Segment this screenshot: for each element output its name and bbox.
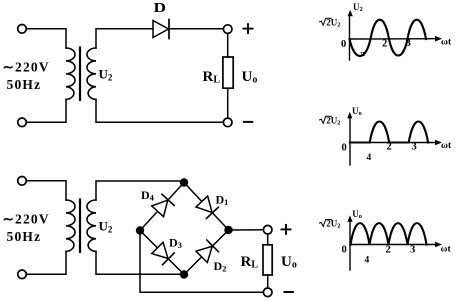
wire diode D to + terminal xyxy=(169,28,223,30)
svg-text:4: 4 xyxy=(365,256,370,266)
terminal +out (bottom circuit) xyxy=(263,225,272,234)
wire RL to - terminal (bottom circuit) xyxy=(267,275,269,288)
axis X panel 3 xyxy=(350,244,437,246)
diode D4 (triangle + bar, pointing to node A) xyxy=(152,194,174,216)
svg-text:RL: RL xyxy=(203,69,221,86)
diode D cathode bar xyxy=(168,20,170,39)
svg-text:ωt: ωt xyxy=(441,38,452,48)
svg-text:D4: D4 xyxy=(141,188,155,203)
label 2pi (panel 1) xyxy=(382,39,387,50)
label pi (panel 1) xyxy=(361,49,366,58)
curve u2 sine wave xyxy=(350,20,427,56)
curve full-wave rectified output xyxy=(351,223,427,244)
label wt (panel 2) xyxy=(441,141,452,151)
wire T4 to primary bottom xyxy=(27,252,66,275)
label wt (panel 1) xyxy=(441,38,452,48)
label D1 xyxy=(216,193,229,208)
svg-text:0: 0 xyxy=(342,245,347,256)
label Uo (panel 3 y-axis) xyxy=(352,209,362,220)
terminal T1 (top-left input) xyxy=(18,25,27,34)
label 0 (panel 3 origin) xyxy=(342,245,347,256)
wire secondary bottom to bridge bottom node xyxy=(96,252,184,275)
label U2 (secondary voltage, bottom circuit) xyxy=(99,219,113,235)
svg-text:3: 3 xyxy=(406,38,411,49)
svg-text:0: 0 xyxy=(342,143,347,154)
label ~220V 50Hz (source value, top circuit) xyxy=(3,60,50,92)
svg-text:2U2: 2U2 xyxy=(326,219,340,230)
axis Y panel 1 xyxy=(349,14,351,60)
wire bridge edge A-B (through D4) xyxy=(140,183,184,231)
label + (top circuit) xyxy=(244,24,253,33)
svg-text:D3: D3 xyxy=(169,236,182,251)
label ~220V 50Hz (source value, bottom circuit) xyxy=(3,212,50,244)
label sqrt2 U2 (panel 1 amplitude) xyxy=(320,17,341,28)
terminal T4 (bottom-left input, bottom circuit) xyxy=(18,270,27,279)
label U2 (secondary voltage, top circuit) xyxy=(99,67,113,83)
transformer TR2 secondary winding xyxy=(87,200,96,252)
svg-text:50Hz: 50Hz xyxy=(7,77,42,92)
arrowhead Y panel 1 xyxy=(348,10,353,16)
svg-text:∼220V: ∼220V xyxy=(3,212,50,227)
resistor RL (top circuit) xyxy=(223,57,233,88)
svg-text:π: π xyxy=(361,49,366,58)
svg-text:ωt: ωt xyxy=(441,141,452,151)
terminal T2 (bottom-left input) xyxy=(18,118,27,127)
axis X panel 2 xyxy=(350,142,437,144)
label 3pi (panel 3) xyxy=(410,245,415,256)
svg-text:50Hz: 50Hz xyxy=(7,229,42,244)
svg-text:Uo: Uo xyxy=(242,69,258,86)
label pi (panel 3) xyxy=(365,256,370,266)
transformer TR2 primary winding xyxy=(66,200,75,252)
svg-text:ωt: ωt xyxy=(441,245,452,255)
label sqrt2 U2 (panel 2 amplitude) xyxy=(320,116,341,127)
svg-text:RL: RL xyxy=(241,254,259,271)
curve half-wave rectified output xyxy=(350,122,428,143)
svg-text:2: 2 xyxy=(382,39,387,50)
wire RL to - terminal xyxy=(227,88,229,118)
transformer TR1 primary winding xyxy=(66,48,75,100)
label 2pi (panel 2) xyxy=(387,142,392,153)
svg-text:2U2: 2U2 xyxy=(326,116,340,127)
node C (bridge right junction) xyxy=(224,226,232,234)
terminal -out (top circuit) xyxy=(223,118,232,127)
svg-text:Uo: Uo xyxy=(352,106,362,117)
transformer TR1 core xyxy=(79,48,81,101)
label RL (top circuit) xyxy=(203,69,221,86)
label wt (panel 3) xyxy=(441,245,452,255)
axis Y panel 3 xyxy=(349,220,351,271)
label U2 (panel 1 y-axis) xyxy=(353,2,363,13)
diode D3 (triangle + bar, pointing to node E) xyxy=(152,242,174,264)
svg-text:3: 3 xyxy=(412,142,417,153)
wire T1 to primary top xyxy=(27,29,66,48)
wire T3 to primary top xyxy=(27,181,66,200)
arrowhead X panel 2 xyxy=(435,140,442,146)
axis Y panel 2 xyxy=(349,116,351,165)
svg-text:D2: D2 xyxy=(214,259,227,274)
svg-text:0: 0 xyxy=(341,39,346,50)
transformer TR2 core xyxy=(79,200,81,253)
diode D1 (triangle + bar, pointing to node C) xyxy=(196,196,218,218)
svg-text:U2: U2 xyxy=(99,219,113,235)
diode D2 (triangle + bar, pointing to node C) xyxy=(196,240,218,262)
label - (top circuit) xyxy=(244,121,252,123)
label - (bottom circuit) xyxy=(285,291,293,293)
label D xyxy=(154,0,167,15)
wire + terminal to RL xyxy=(227,34,229,57)
arrowhead Y panel 3 xyxy=(347,215,352,222)
node B (bridge left junction) xyxy=(136,226,144,234)
label D3 xyxy=(169,236,182,251)
diode D xyxy=(153,21,169,38)
svg-text:4: 4 xyxy=(367,153,372,163)
wire secondary top to diode D xyxy=(96,29,153,48)
svg-text:2U2: 2U2 xyxy=(326,17,340,28)
wire T2 to primary bottom xyxy=(27,100,66,123)
wire secondary bottom to - terminal xyxy=(96,100,223,123)
label Uo (output voltage, bottom circuit) xyxy=(281,254,297,271)
label 0 (panel 1 origin) xyxy=(341,39,346,50)
svg-text:U2: U2 xyxy=(353,2,363,13)
label Uo (panel 2 y-axis) xyxy=(352,106,362,117)
label RL (bottom circuit) xyxy=(241,254,259,271)
wire node C to + terminal xyxy=(229,229,264,231)
wire bridge edge B-E (through D3) xyxy=(140,231,184,275)
resistor RL (bottom circuit) xyxy=(263,245,272,275)
node A (bridge top junction) xyxy=(180,178,188,186)
label D4 xyxy=(141,188,155,203)
label D2 xyxy=(214,259,227,274)
svg-text:2: 2 xyxy=(386,245,391,256)
svg-text:Uo: Uo xyxy=(352,209,362,220)
wire node B down and right to - terminal xyxy=(140,235,263,293)
label sqrt2 U2 (panel 3 amplitude) xyxy=(320,219,341,230)
svg-text:D: D xyxy=(154,0,167,15)
arrowhead Y panel 2 xyxy=(347,112,352,119)
svg-text:Uo: Uo xyxy=(281,254,297,271)
label 2pi (panel 3) xyxy=(386,245,391,256)
axis X panel 1 xyxy=(350,38,438,40)
label + (bottom circuit) xyxy=(282,225,291,234)
wire secondary top to bridge top node xyxy=(96,181,184,200)
terminal -out (bottom circuit) xyxy=(263,288,272,297)
arrowhead X panel 3 xyxy=(435,242,442,248)
svg-text:D1: D1 xyxy=(216,193,229,208)
terminal +out (top circuit) xyxy=(223,25,232,34)
label 0 (panel 2 origin) xyxy=(342,143,347,154)
label Uo (output voltage, top circuit) xyxy=(242,69,258,86)
svg-text:3: 3 xyxy=(410,245,415,256)
svg-text:∼220V: ∼220V xyxy=(3,60,50,75)
wire bridge edge E-C (through D2) xyxy=(184,230,229,275)
node E (bridge bottom junction) xyxy=(180,270,188,278)
terminal T3 (top-left input, bottom circuit) xyxy=(18,177,27,186)
wire bridge edge A-C (through D1) xyxy=(184,183,229,231)
svg-text:U2: U2 xyxy=(99,67,113,83)
label 3pi (panel 1) xyxy=(406,38,411,49)
transformer TR1 secondary winding xyxy=(87,48,96,100)
label 3pi (panel 2) xyxy=(412,142,417,153)
arrowhead X panel 1 xyxy=(435,36,442,42)
label pi (panel 2) xyxy=(367,153,372,163)
wire + terminal to RL (bottom circuit) xyxy=(267,234,269,245)
svg-text:2: 2 xyxy=(387,142,392,153)
